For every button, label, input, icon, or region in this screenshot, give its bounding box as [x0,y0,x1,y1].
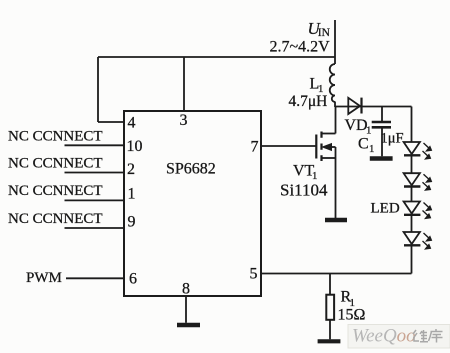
svg-text:9: 9 [128,213,136,230]
svg-text:1: 1 [369,143,375,155]
LED D2 emission arrows [423,174,432,190]
LED D1 triangle [404,142,420,154]
wire U_IN vertical [334,20,336,64]
wire top horizontal VIN rail [98,56,335,58]
transistor VT1 body arrow line [330,146,336,148]
ground bar under C1 [370,156,393,160]
transistor VT1 source stub [322,157,336,159]
wire PWM pin 6 [66,277,124,279]
wire NC pin 9 [65,227,125,229]
LED D1 emission arrows [423,143,432,159]
wire gate from pin 7 [261,145,316,147]
wire capacitor C1 branch top [381,107,383,122]
svg-text:3: 3 [180,112,188,129]
svg-text:C: C [358,136,369,153]
wire LED2 to LED3 [411,187,413,202]
LED D3 cathode bar [404,214,420,216]
svg-text:1: 1 [128,185,136,202]
svg-text:7: 7 [251,138,259,155]
wire pin 4 horizontal [98,121,124,123]
transistor VT1 drain stub [322,133,336,135]
IC U1 SP6682 body [124,111,261,296]
svg-text:15Ω: 15Ω [338,307,366,324]
svg-text:WeeQoo: WeeQoo [352,326,416,347]
svg-text:10: 10 [127,138,143,155]
wire pin 5 rail horizontal [261,273,412,275]
wire NC pin 10 [65,144,125,146]
transistor VT1 gate bar [315,135,317,159]
wire R1 bottom stub [329,320,331,340]
wire MOSFET drain vertical [335,107,337,134]
ground bar under R1 [318,339,341,343]
capacitor C1 bottom plate [372,126,391,129]
ground bar under IC pin 8 [177,323,200,327]
LED D4 cathode bar [404,244,420,246]
transistor VT1 channel bar segments [320,132,322,162]
svg-text:1μF: 1μF [381,131,404,147]
wire coil to diode junction [334,102,336,108]
watermark hanzi ku [429,329,443,343]
LED D4 triangle [404,232,420,244]
svg-text:8: 8 [182,281,190,298]
svg-text:2.7~4.2V: 2.7~4.2V [270,39,331,56]
wire capacitor C1 to ground [381,129,383,157]
capacitor C1 top plate [372,121,391,124]
svg-text:NC CCNNECT: NC CCNNECT [8,129,103,145]
svg-text:4: 4 [128,114,136,131]
svg-text:SP6682: SP6682 [166,161,216,178]
wire diode rail horizontal [335,106,412,108]
wire pin 8 ground stub [185,296,187,323]
wire source vertical to ground [335,147,337,219]
svg-text:VD: VD [345,117,368,134]
ground bar under VT1 source [325,218,347,222]
svg-text:4.7μH: 4.7μH [289,93,328,110]
wire LED chain top [411,107,413,143]
svg-text:5: 5 [250,266,258,283]
svg-text:LED: LED [371,201,400,217]
svg-text:NC CCNNECT: NC CCNNECT [8,211,103,227]
watermark hanzi wei [413,330,428,342]
LED D3 triangle [404,202,420,214]
wire R1 top stub [329,274,331,295]
svg-text:IN: IN [318,27,331,39]
wire LED4 down to pin5 rail [411,245,413,273]
wire LED1 to LED2 [411,155,413,173]
svg-text:2: 2 [127,161,135,178]
svg-text:NC CCNNECT: NC CCNNECT [8,156,103,172]
diode VD1 triangle [348,98,360,114]
resistor R1 body [326,295,334,320]
svg-text:Si1104: Si1104 [280,181,328,200]
LED D4 emission arrows [423,233,432,249]
svg-text:PWM: PWM [26,270,62,286]
wire pin 3 drop [183,57,185,111]
inductor L1 coil [330,64,335,102]
LED D3 emission arrows [423,203,432,219]
wire left loop vertical to pin 4 [97,57,99,122]
wire LED3 to LED4 [411,215,413,232]
wire NC pin 1 [65,199,125,201]
LED D2 cathode bar [404,185,420,187]
LED D1 cathode bar [404,154,420,156]
svg-text:NC CCNNECT: NC CCNNECT [8,183,103,199]
watermark box [348,325,450,349]
wire NC pin 2 [65,172,125,174]
LED D2 triangle [404,173,420,185]
diode VD1 cathode bar [360,98,362,114]
svg-text:6: 6 [129,271,137,288]
transistor VT1 arrowhead [323,144,332,151]
